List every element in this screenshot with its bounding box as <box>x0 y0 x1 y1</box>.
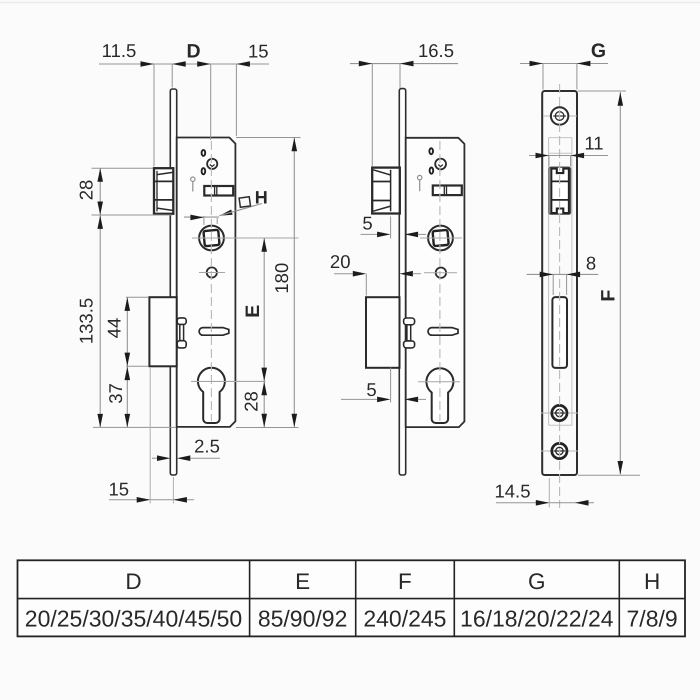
table value G <box>460 606 614 632</box>
slot oval view1 <box>199 328 229 336</box>
table header G <box>528 569 546 594</box>
cylinder centerline horizontal view2 <box>418 381 460 383</box>
svg-text:16/18/20/22/24: 16/18/20/22/24 <box>460 606 614 632</box>
centerline hub horizontal view1 / E extension <box>192 237 299 239</box>
euro cylinder hole view1 <box>198 368 225 423</box>
svg-text:15: 15 <box>109 479 130 500</box>
dim 37 left <box>105 366 130 427</box>
lock body case view2 <box>406 138 465 427</box>
svg-text:133.5: 133.5 <box>76 298 97 344</box>
dim 11 view3 <box>529 133 608 167</box>
svg-text:D: D <box>125 569 141 594</box>
dim chain 11.5 / D / 15 <box>99 40 269 167</box>
centerline vertical view3 <box>559 84 561 508</box>
latch front view3 <box>551 169 569 213</box>
dim H leader <box>184 188 268 225</box>
svg-text:11: 11 <box>584 133 603 154</box>
svg-text:28: 28 <box>75 180 96 201</box>
faceplate P1 <box>170 89 176 475</box>
dim 180 right <box>236 138 301 428</box>
dim 5 lower view2 <box>341 368 426 403</box>
small hole below hub view2 <box>436 268 446 278</box>
screw slot lower view1 <box>202 168 206 174</box>
deadbolt opening view3 <box>552 297 567 368</box>
centerline hub horizontal view2 <box>420 237 462 239</box>
dim 44 left <box>103 297 148 366</box>
dim F right <box>578 91 640 475</box>
dim G top <box>520 40 608 90</box>
frame top edge <box>0 2 700 4</box>
svg-text:2.5: 2.5 <box>194 436 220 457</box>
dim 28 right <box>236 381 299 427</box>
screw slot lower view2 <box>430 168 434 174</box>
faceplate front view3 <box>542 91 577 475</box>
small hole below hub view1 <box>207 267 217 277</box>
svg-text:5: 5 <box>366 379 376 400</box>
svg-text:D: D <box>186 41 200 63</box>
table value H <box>627 606 678 632</box>
cylinder centerline horizontal view1 / E-28 extension <box>191 380 266 382</box>
hub follower bar view2 <box>433 186 462 196</box>
dim 2.5 faceplate thickness <box>152 436 220 462</box>
centerline vertical view2 <box>439 141 441 421</box>
svg-text:20/25/30/35/40/45/50: 20/25/30/35/40/45/50 <box>25 606 242 632</box>
latch bolt view2 <box>372 168 400 214</box>
dimension table <box>18 560 686 636</box>
svg-text:240/245: 240/245 <box>363 606 446 632</box>
svg-text:180: 180 <box>271 263 292 294</box>
screw hole round view1 <box>207 159 217 169</box>
pin symbol view2 <box>418 175 422 191</box>
svg-text:E: E <box>242 305 264 318</box>
bolt stump detail view2 <box>404 318 415 348</box>
dim E right <box>242 238 267 381</box>
svg-text:5: 5 <box>362 213 372 234</box>
dim 133.5 left <box>76 215 176 428</box>
svg-text:E: E <box>295 569 310 594</box>
table value F <box>363 606 446 632</box>
table header F <box>398 569 412 594</box>
svg-text:H: H <box>255 188 268 208</box>
spindle hub view1 <box>199 226 224 251</box>
lock body case view1 <box>177 138 236 427</box>
svg-text:F: F <box>598 290 620 302</box>
latch bolt view1 <box>154 168 173 214</box>
table header H <box>644 569 660 594</box>
svg-text:15: 15 <box>248 41 269 62</box>
table header D <box>125 569 141 594</box>
svg-text:F: F <box>398 569 412 594</box>
dim 28 left <box>75 168 172 215</box>
screw hole mid view3 <box>541 405 578 420</box>
deadbolt housing view2 <box>366 297 400 368</box>
dim 5 upper view2 <box>361 213 427 239</box>
bolt stump detail view1 <box>177 318 186 348</box>
svg-text:16.5: 16.5 <box>418 40 454 61</box>
faceplate P2 <box>399 89 405 475</box>
svg-text:11.5: 11.5 <box>102 40 137 61</box>
svg-text:H: H <box>644 569 660 594</box>
svg-text:28: 28 <box>241 391 262 412</box>
svg-text:8: 8 <box>586 252 596 273</box>
centerline vertical view1 <box>210 141 212 421</box>
svg-text:7/8/9: 7/8/9 <box>627 606 678 632</box>
svg-text:85/90/92: 85/90/92 <box>258 606 348 632</box>
screw hole round view2 <box>435 159 446 170</box>
screw slot upper view1 <box>202 150 206 156</box>
svg-text:20: 20 <box>330 251 351 272</box>
top screw hole view3 <box>543 107 577 124</box>
slot oval view2 <box>428 328 458 336</box>
deadbolt housing view1 <box>149 297 176 366</box>
centerline small hole view2 <box>424 272 457 274</box>
screw hole bottom view3 <box>541 443 578 458</box>
screw slot upper view2 <box>429 148 433 154</box>
svg-text:37: 37 <box>105 383 126 404</box>
dim 8 view3 <box>527 252 599 295</box>
euro cylinder hole view2 <box>426 368 453 423</box>
hub follower bar view1 <box>204 186 233 196</box>
latch opening view3 <box>549 167 571 214</box>
dim 14.5 bottom view3 <box>494 478 594 508</box>
table value D <box>25 606 242 632</box>
spindle hub view2 <box>428 226 453 251</box>
table value E <box>258 606 348 632</box>
pin symbol view1 <box>191 177 195 192</box>
hidden body lines view3 <box>549 138 572 426</box>
svg-text:G: G <box>591 40 606 62</box>
svg-text:G: G <box>528 569 546 594</box>
svg-text:44: 44 <box>103 318 124 339</box>
centerline small hole view1 <box>199 272 225 274</box>
table header E <box>295 569 310 594</box>
dim 16.5 top <box>350 40 458 166</box>
svg-text:14.5: 14.5 <box>494 481 530 502</box>
dim 15 bottom <box>109 368 194 504</box>
dim 20 view2 <box>330 251 421 296</box>
